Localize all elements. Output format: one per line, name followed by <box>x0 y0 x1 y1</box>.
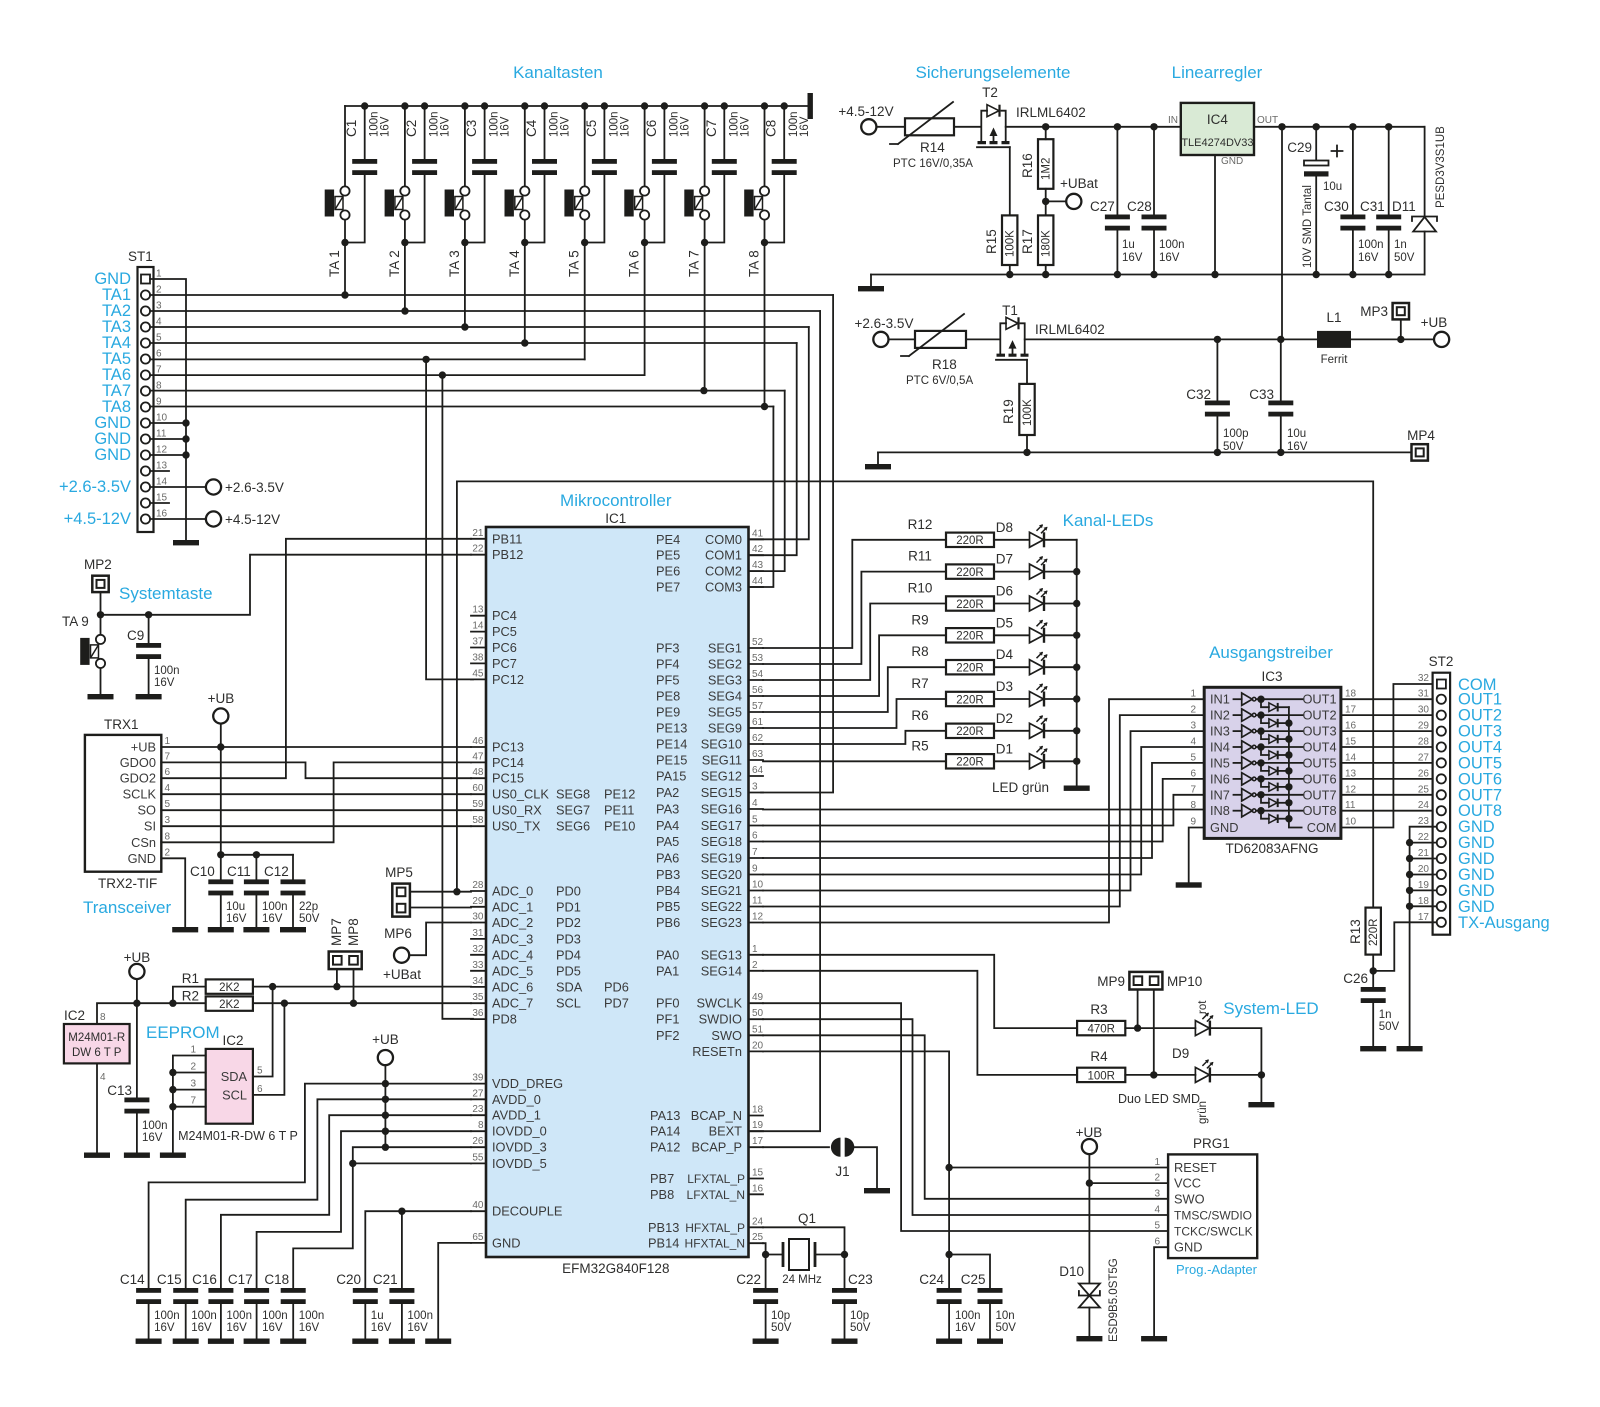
svg-text:C4: C4 <box>524 119 539 137</box>
wire ST2 GND bus <box>1406 827 1437 1046</box>
svg-text:2K2: 2K2 <box>219 982 239 994</box>
svg-text:PE8: PE8 <box>656 689 680 704</box>
svg-text:3: 3 <box>165 815 171 826</box>
wire SCL net R2 to IC1 pin 35 and IC2 SCL <box>253 1000 471 1095</box>
svg-text:6: 6 <box>752 831 758 842</box>
svg-text:PB13: PB13 <box>648 1220 679 1235</box>
wire IC3 OUT3 to ST2 pin 29 <box>1341 730 1437 732</box>
svg-text:TCKC/SWCLK: TCKC/SWCLK <box>1174 1225 1253 1239</box>
svg-text:Ferrit: Ferrit <box>1321 354 1349 366</box>
led D8 green <box>996 520 1048 548</box>
svg-text:PB12: PB12 <box>492 547 523 562</box>
wire IC3 OUT6 to ST2 pin 26 <box>1341 778 1437 780</box>
resistor R12 220R <box>908 517 994 547</box>
svg-text:C5: C5 <box>584 120 599 137</box>
svg-text:17: 17 <box>1418 912 1430 923</box>
capacitor C25 10n 50V <box>949 1255 1016 1339</box>
IC1 pin 54 SEG3 <box>656 669 764 688</box>
ground LED bus <box>1064 786 1090 791</box>
svg-text:50V: 50V <box>1394 252 1415 264</box>
wire D3 cathode to LED bus <box>1045 698 1077 700</box>
wire IC1 pin 9 to IC3 IN4 <box>763 747 1204 875</box>
svg-text:SEG3: SEG3 <box>708 673 742 688</box>
wire ST1 pin15 stub <box>150 502 169 504</box>
svg-text:LFXTAL_N: LFXTAL_N <box>687 1188 745 1202</box>
ground C22 <box>753 1339 779 1344</box>
svg-text:rot: rot <box>1197 1000 1209 1014</box>
svg-text:38: 38 <box>472 652 484 663</box>
wire IC1 pin 1 to R3 <box>763 955 1077 1028</box>
svg-text:PA2: PA2 <box>656 785 679 800</box>
svg-text:61: 61 <box>752 717 764 728</box>
wire T1 gate to R19 <box>1026 360 1028 384</box>
svg-text:2: 2 <box>1154 1173 1160 1184</box>
terminal +4.5-12V <box>838 104 893 134</box>
testpoints MP7 MP8 <box>329 918 362 969</box>
ground C25 <box>977 1339 1003 1344</box>
svg-text:51: 51 <box>752 1024 764 1035</box>
svg-text:1u: 1u <box>1122 239 1135 251</box>
wire T2 drain to IC4 IN <box>1006 126 1181 128</box>
svg-text:11: 11 <box>1345 800 1356 811</box>
svg-text:ADC_2: ADC_2 <box>492 915 533 930</box>
svg-text:C17: C17 <box>228 1272 253 1287</box>
IC1 pin 41 COM0 <box>656 528 764 547</box>
svg-text:D7: D7 <box>996 552 1013 567</box>
IC1 pin 4 SEG16 <box>656 798 763 817</box>
svg-text:SEG18: SEG18 <box>701 834 742 849</box>
wire IC2 pins 1,2,3,7 to ground <box>169 1056 206 1153</box>
ground C14 <box>136 1339 162 1344</box>
wire net TA1 row <box>150 291 833 298</box>
svg-text:M24M01-R: M24M01-R <box>68 1032 125 1044</box>
svg-text:45: 45 <box>472 668 484 679</box>
svg-text:TRX1: TRX1 <box>104 717 139 732</box>
svg-text:13: 13 <box>1345 768 1357 779</box>
capacitor C29 10u tantal <box>1287 127 1342 275</box>
wire IC3 OUT8 to ST2 pin 24 <box>1341 810 1437 812</box>
svg-text:PD5: PD5 <box>556 963 581 978</box>
svg-text:ADC_5: ADC_5 <box>492 963 533 978</box>
wire TA1 button drop to row <box>344 243 346 296</box>
capacitor C3 <box>461 102 511 242</box>
svg-text:MP9: MP9 <box>1097 974 1125 989</box>
svg-text:TA 3: TA 3 <box>447 250 462 277</box>
wire IC4 OUT bus <box>1254 123 1425 130</box>
wire R16 to R17 node <box>1042 189 1049 216</box>
svg-text:C27: C27 <box>1090 199 1115 214</box>
ground C20 <box>352 1339 378 1344</box>
svg-text:T1: T1 <box>1002 303 1018 318</box>
svg-text:ADC_0: ADC_0 <box>492 884 533 899</box>
svg-text:SCL: SCL <box>222 1088 247 1103</box>
svg-text:56: 56 <box>752 685 764 696</box>
resistor R9 220R <box>911 612 994 642</box>
resistor R10 220R <box>908 581 994 611</box>
wire TA1 riser to IC1 pin 3 <box>761 295 833 793</box>
svg-text:4: 4 <box>752 798 758 809</box>
ground J1 <box>864 1188 890 1193</box>
wire IC1 pin 4 to IC3 IN8 <box>763 809 1204 811</box>
svg-text:6: 6 <box>257 1084 263 1095</box>
svg-text:50: 50 <box>752 1008 764 1019</box>
svg-text:16: 16 <box>1345 721 1357 732</box>
svg-text:VDD_DREG: VDD_DREG <box>492 1076 563 1091</box>
svg-text:SEG2: SEG2 <box>708 657 742 672</box>
svg-text:42: 42 <box>752 544 764 555</box>
wire +UB drop to TRX supply row and C10 bus <box>217 724 224 859</box>
svg-text:32: 32 <box>1418 673 1430 684</box>
svg-text:59: 59 <box>472 799 484 810</box>
svg-text:220R: 220R <box>1368 919 1380 947</box>
svg-text:2: 2 <box>190 1062 196 1073</box>
svg-text:4: 4 <box>1154 1205 1160 1216</box>
capacitor C10 10u 16V <box>190 855 247 927</box>
svg-text:PE10: PE10 <box>604 819 635 834</box>
svg-text:PF0: PF0 <box>656 996 679 1011</box>
svg-text:17: 17 <box>752 1136 764 1147</box>
svg-text:16V: 16V <box>560 116 572 137</box>
ground C13 <box>124 1153 150 1158</box>
svg-text:C26: C26 <box>1343 971 1368 986</box>
svg-text:ADC_4: ADC_4 <box>492 947 533 962</box>
svg-text:PE11: PE11 <box>604 803 634 818</box>
svg-text:C21: C21 <box>373 1272 398 1287</box>
svg-text:16V: 16V <box>262 913 283 925</box>
svg-text:16V: 16V <box>380 116 392 137</box>
wire VDD row to C17 <box>257 1131 471 1288</box>
svg-text:22p: 22p <box>299 901 318 913</box>
IC1 pin 30 ADC_2 <box>471 912 581 931</box>
capacitor C5 <box>581 102 631 242</box>
svg-text:R8: R8 <box>911 644 928 659</box>
svg-text:IOVDD_0: IOVDD_0 <box>492 1124 547 1139</box>
IC1 pin 45 PC12 <box>471 668 524 687</box>
svg-text:C23: C23 <box>848 1272 873 1287</box>
pushbutton TA 5 <box>564 106 589 277</box>
testpoint MP4 <box>1407 428 1435 461</box>
IC1 pin 27 AVDD_0 <box>471 1088 541 1107</box>
svg-text:T2: T2 <box>982 85 998 100</box>
svg-text:R5: R5 <box>911 738 928 753</box>
svg-text:PE5: PE5 <box>656 548 680 563</box>
wire IC3 OUT2 to ST2 pin 30 <box>1341 714 1437 716</box>
svg-text:C25: C25 <box>961 1272 986 1287</box>
IC1 pin 48 PC15 <box>471 767 524 786</box>
wire IC1 pin 10 to IC3 IN3 <box>763 731 1204 890</box>
svg-text:C10: C10 <box>190 864 215 879</box>
wire D7 cathode to LED bus <box>1045 571 1077 573</box>
svg-text:4: 4 <box>100 1072 106 1083</box>
svg-text:EFM32G840F128: EFM32G840F128 <box>562 1261 669 1276</box>
resistor R17 180K <box>1020 215 1053 265</box>
svg-text:COM2: COM2 <box>705 564 742 579</box>
svg-text:+UBat: +UBat <box>1060 176 1098 191</box>
svg-text:14: 14 <box>1345 752 1357 763</box>
capacitor C17 100n 16V <box>228 1272 288 1339</box>
svg-text:D4: D4 <box>996 647 1014 662</box>
svg-text:100n: 100n <box>226 1310 252 1322</box>
svg-text:PA1: PA1 <box>656 963 679 978</box>
wire LED cathode bus <box>1073 540 1080 786</box>
svg-text:15: 15 <box>1345 737 1357 748</box>
svg-text:+4.5-12V: +4.5-12V <box>225 512 280 527</box>
svg-text:D5: D5 <box>996 615 1013 630</box>
led D9 duo red <box>1195 1000 1213 1036</box>
svg-text:54: 54 <box>752 669 764 680</box>
led D5 green <box>996 615 1048 643</box>
IC1 pin 49 SWCLK <box>656 992 764 1011</box>
svg-text:100K: 100K <box>1005 230 1017 257</box>
svg-text:24: 24 <box>752 1216 764 1227</box>
svg-text:TA 1: TA 1 <box>327 250 342 277</box>
ground C16 <box>208 1339 234 1344</box>
svg-text:SCLK: SCLK <box>123 787 157 802</box>
svg-text:R11: R11 <box>908 549 932 564</box>
svg-text:Kanaltasten: Kanaltasten <box>513 63 603 82</box>
svg-text:30: 30 <box>472 912 484 923</box>
IC1 pin 18 BCAP_N <box>650 1105 764 1124</box>
IC1 pin 51 SWO <box>656 1024 764 1043</box>
svg-text:D1: D1 <box>996 741 1013 756</box>
svg-text:26: 26 <box>472 1136 484 1147</box>
svg-text:16V: 16V <box>679 116 691 137</box>
IC1 pin 36 PD8 <box>471 1008 517 1027</box>
svg-text:+UB: +UB <box>1421 315 1448 330</box>
resistor R11 220R <box>908 549 994 579</box>
svg-text:PE4: PE4 <box>656 532 680 547</box>
svg-text:35: 35 <box>472 992 484 1003</box>
svg-text:C1: C1 <box>344 120 359 137</box>
svg-text:7: 7 <box>165 751 171 762</box>
svg-text:21: 21 <box>1418 848 1430 859</box>
svg-text:C20: C20 <box>336 1272 361 1287</box>
wire button common bus <box>345 105 808 107</box>
svg-text:16V: 16V <box>299 1322 320 1334</box>
svg-text:IC1: IC1 <box>605 511 626 526</box>
svg-text:C32: C32 <box>1186 387 1211 402</box>
svg-text:Q1: Q1 <box>798 1211 816 1226</box>
svg-text:R14: R14 <box>920 140 945 155</box>
wire R10 to D6 <box>994 603 1029 605</box>
svg-text:28: 28 <box>1418 737 1430 748</box>
testpoints MP9 MP10 <box>1097 972 1202 990</box>
svg-text:MP8: MP8 <box>346 918 361 946</box>
svg-text:PD1: PD1 <box>556 899 581 914</box>
svg-text:System-LED: System-LED <box>1223 999 1318 1018</box>
svg-text:6: 6 <box>1190 768 1196 779</box>
IC1 pin 11 SEG22 <box>656 896 763 915</box>
svg-text:29: 29 <box>1418 721 1430 732</box>
resistor R7 220R <box>911 676 994 706</box>
svg-text:4: 4 <box>156 317 162 328</box>
led D4 green <box>996 647 1048 675</box>
svg-text:AVDD_1: AVDD_1 <box>492 1108 541 1123</box>
ground C24 <box>936 1339 962 1344</box>
svg-text:220R: 220R <box>956 694 984 706</box>
svg-text:SEG12: SEG12 <box>701 769 742 784</box>
svg-text:2: 2 <box>752 960 758 971</box>
IC1 pin 16 LFXTAL_N <box>650 1183 764 1202</box>
wire MP9 to R3 output <box>1134 990 1141 1032</box>
svg-text:GND: GND <box>1210 820 1238 835</box>
svg-text:SEG10: SEG10 <box>701 737 742 752</box>
wire decoupling bus C10-C12 <box>221 851 293 858</box>
capacitor C9 100n 16V <box>127 615 180 694</box>
svg-text:D6: D6 <box>996 584 1013 599</box>
svg-text:R3: R3 <box>1090 1002 1107 1017</box>
svg-text:10n: 10n <box>996 1310 1015 1322</box>
wire R7 to D3 <box>994 698 1029 700</box>
svg-text:23: 23 <box>1418 816 1430 827</box>
svg-text:100n: 100n <box>299 1310 325 1322</box>
svg-text:8: 8 <box>100 1012 106 1023</box>
svg-text:ADC_7: ADC_7 <box>492 996 533 1011</box>
svg-text:16V: 16V <box>407 1322 428 1334</box>
svg-text:470R: 470R <box>1087 1024 1115 1036</box>
capacitor C7 <box>701 102 751 242</box>
svg-text:PA14: PA14 <box>650 1124 680 1139</box>
svg-text:5: 5 <box>257 1066 263 1077</box>
svg-text:R1: R1 <box>182 971 199 986</box>
svg-text:4: 4 <box>1190 737 1196 748</box>
svg-text:R19: R19 <box>1001 399 1016 424</box>
svg-text:12: 12 <box>752 912 764 923</box>
svg-text:Systemtaste: Systemtaste <box>119 584 213 603</box>
wire +4.5-12V to R14 <box>876 126 905 128</box>
svg-text:C16: C16 <box>192 1272 217 1287</box>
svg-text:44: 44 <box>752 576 764 587</box>
svg-text:SEG22: SEG22 <box>701 899 742 914</box>
capacitor C18 100n 16V <box>264 1272 324 1339</box>
svg-text:14: 14 <box>472 621 484 632</box>
svg-text:1: 1 <box>165 736 171 747</box>
svg-text:PE7: PE7 <box>656 580 680 595</box>
svg-text:7: 7 <box>156 365 162 376</box>
svg-text:R4: R4 <box>1090 1049 1108 1064</box>
wire IC1 pin 25 HFXTAL_N to crystal left node <box>763 1243 766 1254</box>
svg-text:+UB: +UB <box>124 950 151 965</box>
svg-text:ST1: ST1 <box>128 249 153 264</box>
svg-text:11: 11 <box>156 429 167 440</box>
svg-text:3: 3 <box>1190 721 1196 732</box>
svg-text:LFXTAL_P: LFXTAL_P <box>687 1172 745 1186</box>
svg-text:R17: R17 <box>1020 229 1035 254</box>
svg-text:PE15: PE15 <box>656 753 687 768</box>
svg-text:21: 21 <box>472 528 484 539</box>
IC1 pin 56 SEG4 <box>656 685 764 704</box>
wire IC1 to R5 <box>763 760 946 762</box>
svg-text:SEG20: SEG20 <box>701 867 742 882</box>
svg-text:20: 20 <box>1418 864 1430 875</box>
capacitor C20 1u 16V <box>336 1272 391 1339</box>
svg-text:50V: 50V <box>1223 441 1244 453</box>
svg-text:LED grün: LED grün <box>992 780 1049 795</box>
svg-text:13: 13 <box>156 461 168 472</box>
svg-text:EEPROM: EEPROM <box>146 1023 220 1042</box>
svg-text:100n: 100n <box>955 1310 981 1322</box>
svg-text:+UB: +UB <box>372 1032 399 1047</box>
svg-text:SCL: SCL <box>556 996 581 1011</box>
terminal +4.5-12V at ST1 pin16 <box>150 511 280 527</box>
svg-text:SEG13: SEG13 <box>701 947 742 962</box>
IC1 pin 58 US0_TX <box>471 815 635 834</box>
wire MP2/TA9/C9 node to IC1 pin 22 <box>97 555 471 619</box>
svg-text:OUT4: OUT4 <box>1302 740 1336 755</box>
IC1 pin 59 US0_RX <box>471 799 634 818</box>
svg-text:50V: 50V <box>1379 1021 1400 1033</box>
svg-text:RESET: RESET <box>1174 1160 1217 1175</box>
svg-text:SEG16: SEG16 <box>701 802 742 817</box>
svg-text:9: 9 <box>752 864 758 875</box>
svg-text:OUT1: OUT1 <box>1302 692 1336 707</box>
capacitor C15 100n 16V <box>157 1272 217 1339</box>
pushbutton TA 7 <box>684 106 709 277</box>
wire R11 to D7 <box>994 571 1029 573</box>
pushbutton TA 4 <box>505 106 530 277</box>
svg-text:15: 15 <box>156 493 168 504</box>
wire VDD row to C14 <box>149 1084 471 1288</box>
wire MP10 to R4 output <box>1150 990 1157 1079</box>
wire D5 cathode to LED bus <box>1045 634 1077 636</box>
diode D11 PESD3V3S1UB <box>1392 126 1447 275</box>
svg-text:10: 10 <box>156 413 168 424</box>
svg-text:US0_RX: US0_RX <box>492 803 542 818</box>
IC1 pin 57 SEG5 <box>656 701 764 720</box>
wire R4 to D9 green <box>1125 1074 1195 1076</box>
svg-text:19: 19 <box>1418 880 1430 891</box>
svg-text:PB14: PB14 <box>648 1236 679 1251</box>
svg-text:PA5: PA5 <box>656 834 679 849</box>
svg-text:100n: 100n <box>1358 239 1384 251</box>
wire VDD row to C16 <box>221 1115 471 1288</box>
IC1 pin 14 PC5 <box>471 621 517 640</box>
resistor R19 100K <box>1001 384 1035 435</box>
svg-text:5: 5 <box>156 333 162 344</box>
svg-text:16V: 16V <box>1287 441 1308 453</box>
svg-text:IOVDD_5: IOVDD_5 <box>492 1156 547 1171</box>
resistor R15 100K <box>984 215 1017 265</box>
svg-text:SDA: SDA <box>221 1069 248 1084</box>
wire +UBat to IC1 pin 30 <box>409 923 471 956</box>
IC1 pin 40 DECOUPLE <box>471 1200 562 1219</box>
svg-text:10: 10 <box>752 880 764 891</box>
IC1 pin 9 SEG20 <box>656 864 763 883</box>
connector ST1 <box>59 249 168 532</box>
svg-text:PA12: PA12 <box>650 1140 680 1155</box>
svg-text:31: 31 <box>1418 689 1430 700</box>
svg-text:C28: C28 <box>1127 199 1152 214</box>
svg-text:PE14: PE14 <box>656 737 687 752</box>
wire D9 cathodes to ground <box>1211 1028 1265 1102</box>
IC1 pin 6 SEG18 <box>656 831 763 850</box>
IC1 pin 29 ADC_1 <box>471 896 581 915</box>
pushbutton TA 6 <box>624 106 649 277</box>
svg-text:C29: C29 <box>1287 140 1312 155</box>
svg-text:8: 8 <box>165 831 171 842</box>
capacitor C11 100n 16V <box>227 855 288 927</box>
svg-text:R10: R10 <box>908 581 933 596</box>
wire TRX1 +UB row to IC1 pin 46 <box>161 746 471 748</box>
wire R6 to D2 <box>994 730 1029 732</box>
svg-text:AVDD_0: AVDD_0 <box>492 1092 541 1107</box>
IC1 pin 5 SEG17 <box>656 815 763 834</box>
capacitor C27 1u 16V <box>1090 123 1143 274</box>
svg-text:R15: R15 <box>984 229 999 254</box>
ground C17 <box>244 1339 270 1344</box>
wire ST2 TX pin 17 to R13/C26 node <box>1373 922 1437 971</box>
led D1 green <box>996 741 1048 769</box>
